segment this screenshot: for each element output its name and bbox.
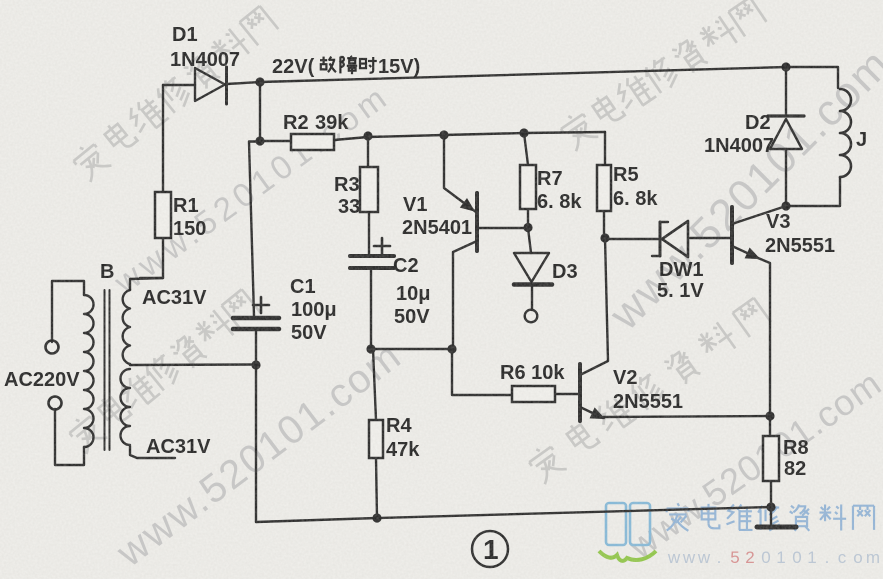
- resistor R2: [291, 134, 334, 150]
- transistor V2 emitter arrow (NPN): [591, 409, 603, 418]
- transformer secondary bottom coil: [121, 369, 131, 445]
- watermark 家电维修资料网 top-right: [557, 0, 767, 152]
- resistor R3 leads: [368, 136, 369, 256]
- transistor V3: [732, 206, 786, 224]
- relay coil J: [840, 89, 851, 177]
- junction node 22V rail at D2/relay: [781, 62, 790, 71]
- transistor V2: [578, 364, 582, 421]
- wire mid rail: [371, 348, 452, 350]
- junction node D2 anode / relay J / V3 collector: [781, 201, 790, 210]
- circled figure number 1: [472, 531, 508, 567]
- transformer core: [105, 290, 110, 450]
- resistor R5 leads: [604, 132, 605, 238]
- wire R2 row: [260, 132, 605, 141]
- diode D1: [195, 68, 225, 101]
- C2 plus: [374, 238, 390, 254]
- ground: [757, 525, 796, 530]
- wire D1 cathode to node: [227, 82, 260, 84]
- junction node 22V rail at D1 cathode: [255, 77, 264, 86]
- logo text 家电维修资料网: [667, 503, 874, 531]
- transistor V3 emitter arrow (NPN): [746, 249, 758, 258]
- transistor V1: [444, 135, 476, 212]
- wire V3 base: [690, 237, 730, 239]
- watermark 家电维修资料网 mid-right: [525, 295, 771, 484]
- junction node R4 bottom on ground rail: [372, 513, 381, 522]
- transformer primary coil: [84, 295, 94, 447]
- junction node C2 bottom / R4 top: [366, 344, 375, 353]
- resistor R5: [597, 165, 611, 211]
- wire D2 anode down: [785, 149, 787, 206]
- transformer secondary top coil: [123, 290, 130, 364]
- diode D3: [514, 253, 549, 282]
- junction node R8 bottom / ground: [766, 502, 775, 511]
- wire R4 leads: [373, 349, 377, 518]
- junction node R5 bottom / DW1 / V2 collector: [600, 233, 609, 242]
- wire D1 anode from R1 top: [163, 84, 195, 86]
- resistor boxes: [155, 134, 779, 481]
- resistor R7: [520, 165, 536, 209]
- book icon: [606, 503, 650, 545]
- wire bottom rail: [256, 507, 771, 522]
- wire C1 branch: [249, 142, 260, 317]
- resistor R4: [369, 420, 383, 458]
- capacitor C1: [233, 316, 279, 321]
- wire R1 top lead: [162, 85, 164, 192]
- junction node V2 emitter / V3 emitter / R8 top: [765, 411, 774, 420]
- transformer primary bottom lead: [55, 409, 84, 465]
- terminal AC220V top: [46, 341, 59, 354]
- watermark 家电维修资料网 bottom-left corner: [65, 287, 261, 454]
- wire R5 to V2 collector: [582, 238, 608, 374]
- watermark 家电维修资料网 top-left: [69, 4, 279, 183]
- junction node R2 left / C1 branch: [255, 136, 264, 145]
- logo url www.520101.com: [667, 548, 880, 567]
- wire D2 top: [785, 67, 787, 116]
- wire J bottom: [786, 177, 840, 206]
- resistor R1 leads: [140, 238, 163, 278]
- junction node V1 emitter branch: [439, 130, 448, 139]
- resistor R3: [360, 167, 378, 212]
- C1 plus: [253, 297, 269, 313]
- wire R6 to V2 base: [556, 393, 578, 395]
- transistor V1 emitter arrow (PNP): [462, 200, 474, 210]
- resistor R8: [763, 436, 779, 481]
- zener DW1: [608, 238, 659, 240]
- resistor R6: [512, 386, 555, 402]
- junction node R2 right / R3 top: [363, 131, 372, 140]
- transformer primary top lead: [52, 281, 84, 342]
- terminal AC220V bottom: [49, 397, 62, 410]
- wire top rail 22V: [260, 67, 838, 88]
- resistor R7 leads: [524, 133, 528, 227]
- secondary center tap lead: [129, 364, 131, 365]
- wire R6 left: [452, 349, 512, 395]
- label 故障时 (fault) in 22V note: [320, 56, 377, 74]
- junction node V1 base / R7 bottom / D3 anode: [523, 223, 532, 232]
- terminal D3: [525, 310, 538, 323]
- junction node R7 top: [519, 128, 528, 137]
- wire D3 top: [528, 228, 531, 253]
- junction node V1 collector / R6 branch: [447, 344, 456, 353]
- secondary bottom lead: [130, 446, 175, 458]
- resistor R1: [155, 192, 171, 238]
- capacitor C2: [350, 254, 394, 258]
- diode D2: [768, 114, 804, 117]
- wire node 22V down to R2 node: [259, 82, 261, 141]
- secondary top lead to R1: [130, 278, 163, 290]
- junction node transformer center tap / C1: [251, 360, 260, 369]
- resistor R8 leads: [770, 416, 771, 524]
- wire center tap: [130, 363, 256, 366]
